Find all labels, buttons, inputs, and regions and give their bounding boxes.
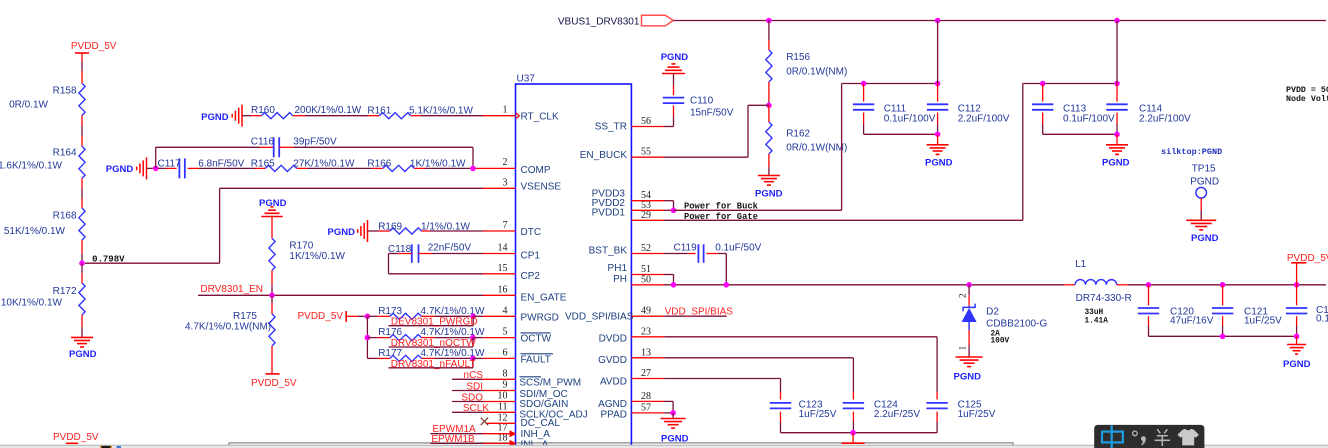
junction nOCTW net bbox=[470, 335, 476, 341]
wire PVDD rail bbox=[1128, 284, 1326, 286]
svg-text:CP1: CP1 bbox=[521, 250, 541, 261]
junction VBUS/C112 bbox=[935, 18, 941, 24]
svg-text:PGND: PGND bbox=[925, 157, 953, 168]
svg-text:6: 6 bbox=[503, 347, 508, 358]
svg-text:51K/1%/0.1W: 51K/1%/0.1W bbox=[4, 226, 66, 237]
svg-text:1uF/25V: 1uF/25V bbox=[1244, 316, 1282, 327]
svg-text:PGND: PGND bbox=[201, 112, 229, 123]
svg-text:PGND: PGND bbox=[69, 349, 97, 360]
svg-text:PGND: PGND bbox=[661, 52, 689, 63]
pin 28 AGND bbox=[631, 400, 664, 402]
IME toolbar bbox=[1094, 425, 1204, 448]
svg-text:PGND: PGND bbox=[328, 227, 356, 238]
wire SCLK bbox=[452, 411, 483, 413]
junction rail/ground bbox=[850, 430, 856, 436]
svg-text:R168: R168 bbox=[53, 210, 77, 221]
wire DRV8301_EN bbox=[198, 294, 483, 296]
no-connect X pin 12 bbox=[481, 418, 488, 425]
svg-text:FAULT: FAULT bbox=[521, 355, 551, 366]
svg-text:13: 13 bbox=[641, 347, 651, 358]
ground (clipped) under rail bbox=[842, 442, 865, 444]
pin 15 CP2 bbox=[483, 273, 516, 275]
wire Power for Gate bbox=[664, 219, 1023, 221]
pin 27 AVDD bbox=[631, 378, 664, 380]
wire R161-pin1 bbox=[421, 115, 483, 117]
taskbar tiny icons bbox=[100, 446, 112, 448]
svg-text:PGND: PGND bbox=[1102, 157, 1130, 168]
net label DRV8301_nFAULT with stub bbox=[389, 367, 473, 369]
pin 1 RT_CLK bbox=[483, 115, 516, 117]
svg-text:56: 56 bbox=[641, 116, 651, 127]
svg-text:SCS/M_PWM: SCS/M_PWM bbox=[519, 378, 581, 389]
wire nCS bbox=[452, 378, 483, 380]
wire VSENSE feedback bbox=[220, 187, 483, 189]
junction COMP/C116 bbox=[470, 166, 476, 172]
svg-text:29: 29 bbox=[641, 210, 651, 221]
diode D2 CDBB2100-G bbox=[968, 285, 970, 295]
svg-text:1: 1 bbox=[958, 346, 968, 351]
resistor R176 bbox=[367, 337, 377, 339]
svg-text:PGND: PGND bbox=[106, 164, 134, 175]
svg-text:49: 49 bbox=[641, 306, 651, 317]
IME icon ban (half-width) bbox=[1155, 429, 1170, 446]
power port PVDD_5V (pull-ups) bbox=[345, 311, 347, 322]
svg-text:L1: L1 bbox=[1075, 259, 1087, 270]
svg-text:9: 9 bbox=[503, 380, 508, 391]
pin 3 VSENSE bbox=[483, 187, 516, 189]
search box top sliver (behind schematic) bbox=[229, 443, 1013, 448]
svg-text:1.6K/1%/0.1W: 1.6K/1%/0.1W bbox=[0, 161, 63, 172]
svg-text:1K/1%/0.1W: 1K/1%/0.1W bbox=[289, 251, 345, 262]
pin 49 VDD_SPI/BIAS bbox=[631, 315, 664, 317]
svg-text:R160: R160 bbox=[251, 105, 275, 116]
capacitor C117 bbox=[158, 167, 166, 169]
junction EN/R170/R175 bbox=[269, 293, 275, 299]
capacitor C112 bbox=[937, 21, 939, 84]
svg-text:D2: D2 bbox=[986, 306, 999, 317]
IME icon punctuation bbox=[1133, 431, 1138, 436]
svg-text:2: 2 bbox=[503, 157, 508, 168]
resistor R162 bbox=[768, 105, 770, 122]
resistor R172 bbox=[81, 263, 83, 273]
junction D2/PH bbox=[966, 282, 972, 288]
svg-text:R161: R161 bbox=[367, 106, 391, 117]
junction PWRGD net bbox=[470, 314, 476, 320]
svg-text:R169: R169 bbox=[378, 221, 402, 232]
svg-text:11: 11 bbox=[498, 401, 508, 412]
svg-text:C110: C110 bbox=[690, 95, 714, 106]
svg-text:nCS: nCS bbox=[464, 370, 484, 381]
svg-text:Power for Gate: Power for Gate bbox=[684, 212, 758, 222]
svg-text:PGND: PGND bbox=[1283, 359, 1311, 370]
junction VBUS/R156 bbox=[766, 18, 772, 24]
pin 5 OCTW bbox=[483, 337, 515, 339]
junction PVDD/R173 bbox=[365, 314, 371, 320]
resistor R164 bbox=[81, 136, 83, 146]
svg-text:BST_BK: BST_BK bbox=[589, 245, 628, 256]
svg-text:DRV8301_EN: DRV8301_EN bbox=[200, 284, 263, 295]
wire Power for Buck bbox=[674, 209, 842, 211]
capacitor C110 bbox=[673, 74, 675, 86]
svg-text:R164: R164 bbox=[53, 148, 77, 159]
svg-text:SDI/M_OC: SDI/M_OC bbox=[519, 389, 567, 400]
junction C113 top bbox=[1040, 81, 1046, 87]
svg-text:2.2uF/25V: 2.2uF/25V bbox=[874, 409, 920, 420]
pin 50 PH bbox=[631, 284, 664, 286]
svg-text:CP2: CP2 bbox=[521, 271, 541, 282]
svg-text:EPWM1B: EPWM1B bbox=[431, 434, 475, 445]
svg-text:Node Voltage: Node Voltage bbox=[1286, 94, 1328, 104]
svg-text:DTC: DTC bbox=[521, 227, 542, 238]
inductor L1 bbox=[1064, 284, 1075, 286]
junction nFAULT net bbox=[470, 356, 476, 362]
svg-text:INH_A: INH_A bbox=[521, 429, 551, 440]
svg-text:4.7K/1%/0.1W(NM): 4.7K/1%/0.1W(NM) bbox=[185, 322, 271, 333]
svg-text:0R/0.1W(NM): 0R/0.1W(NM) bbox=[786, 67, 847, 78]
svg-text:1.41A: 1.41A bbox=[1085, 317, 1109, 325]
svg-text:0R/0.1W: 0R/0.1W bbox=[9, 99, 48, 110]
svg-text:28: 28 bbox=[641, 391, 651, 402]
svg-text:5: 5 bbox=[503, 327, 508, 338]
net label DRV8301_nOCTW with stub bbox=[389, 346, 473, 348]
svg-text:52: 52 bbox=[641, 243, 651, 254]
svg-text:10K/1%/0.1W: 10K/1%/0.1W bbox=[1, 297, 63, 308]
pin 29 PVDD1 bbox=[631, 219, 664, 221]
svg-text:VBUS1_DRV8301: VBUS1_DRV8301 bbox=[558, 17, 640, 28]
wire riser to C113/C114 rail bbox=[1022, 84, 1024, 221]
svg-text:R176: R176 bbox=[378, 327, 402, 338]
pin 23 DVDD bbox=[631, 336, 664, 338]
pin 13 GVDD bbox=[631, 357, 664, 359]
svg-text:Power for Buck: Power for Buck bbox=[684, 202, 759, 212]
svg-text:R166: R166 bbox=[367, 159, 391, 170]
svg-text:C116: C116 bbox=[251, 137, 275, 148]
svg-text:VDD_SPI/BIAS: VDD_SPI/BIAS bbox=[665, 307, 734, 318]
power port PGND (DTC) bbox=[367, 220, 369, 242]
wire riser to C111/C112 rail bbox=[841, 84, 843, 211]
IME icon zhong bbox=[1102, 432, 1123, 443]
pin 56 SS_TR bbox=[631, 126, 664, 128]
svg-text:0.1uF/100V: 0.1uF/100V bbox=[884, 113, 936, 124]
svg-text:0.1uF/100V: 0.1uF/100V bbox=[1063, 113, 1115, 124]
junction PVDD2/PVDD3 bbox=[671, 208, 677, 214]
svg-text:39pF/50V: 39pF/50V bbox=[293, 137, 337, 148]
overline FAULT bbox=[521, 353, 554, 355]
junction C121 bottom bbox=[1220, 334, 1226, 340]
svg-text:PVDD_5V: PVDD_5V bbox=[298, 311, 344, 322]
taskbar strip bbox=[0, 445, 1328, 448]
svg-text:DVDD: DVDD bbox=[599, 334, 627, 345]
capacitor C119 bbox=[664, 253, 688, 255]
junction C111 top bbox=[861, 81, 867, 87]
svg-text:RT_CLK: RT_CLK bbox=[521, 112, 559, 123]
junction divider 0.798V bbox=[79, 260, 85, 266]
ground PGND under D2 bbox=[956, 356, 983, 358]
IME icon shirt (skin) bbox=[1178, 429, 1199, 446]
net label DEV8301_PWRGD with stub bbox=[389, 325, 474, 327]
svg-text:PVDD_5V: PVDD_5V bbox=[251, 378, 297, 389]
svg-text:55: 55 bbox=[641, 147, 651, 158]
svg-text:R156: R156 bbox=[786, 52, 810, 63]
wire R160-R161 bbox=[305, 115, 368, 117]
pin 1 clock chevron bbox=[516, 113, 520, 119]
svg-text:R170: R170 bbox=[289, 240, 313, 251]
capacitor C123 bbox=[770, 402, 791, 404]
pin 51 PH1 bbox=[631, 274, 664, 276]
svg-text:3: 3 bbox=[503, 177, 508, 188]
svg-text:0.1uF/50V: 0.1uF/50V bbox=[715, 242, 761, 253]
resistor R160 bbox=[242, 115, 251, 117]
pin 52 BST_BK bbox=[631, 253, 664, 255]
wire C117-R165 bbox=[199, 167, 255, 169]
svg-text:EN_GATE: EN_GATE bbox=[521, 292, 567, 303]
svg-text:U37: U37 bbox=[517, 74, 536, 85]
pin 4 PWRGD bbox=[483, 315, 515, 317]
svg-text:PGND: PGND bbox=[661, 433, 689, 444]
power port PGND (RT_CLK network) bbox=[241, 105, 243, 127]
pin 2 COMP bbox=[476, 167, 516, 169]
wire SDO bbox=[452, 401, 483, 403]
svg-text:R162: R162 bbox=[786, 128, 810, 139]
wire EPWM1B bbox=[431, 442, 484, 444]
svg-text:16: 16 bbox=[498, 284, 508, 295]
svg-text:0.1uF/25V: 0.1uF/25V bbox=[1316, 313, 1328, 324]
op-amp U37 (gate driver IC box) bbox=[516, 84, 632, 448]
pin 7 DTC bbox=[483, 230, 516, 232]
resistor R173 bbox=[367, 315, 377, 317]
junction C119/PH bbox=[724, 282, 730, 288]
svg-text:100V: 100V bbox=[991, 337, 1010, 345]
svg-text:8: 8 bbox=[503, 368, 508, 379]
svg-text:2: 2 bbox=[958, 293, 968, 298]
svg-text:57: 57 bbox=[641, 402, 651, 413]
svg-text:TP15: TP15 bbox=[1192, 164, 1216, 175]
svg-text:silktop:PGND: silktop:PGND bbox=[1161, 147, 1222, 157]
resistor R161 bbox=[368, 115, 380, 117]
svg-text:C119: C119 bbox=[674, 242, 698, 253]
port VBUS1_DRV8301 bbox=[642, 15, 674, 26]
svg-text:4: 4 bbox=[503, 305, 508, 316]
svg-text:14: 14 bbox=[498, 243, 508, 254]
svg-text:PH: PH bbox=[613, 274, 627, 285]
svg-text:R173: R173 bbox=[378, 306, 402, 317]
svg-text:PGND: PGND bbox=[954, 371, 982, 382]
svg-text:EN_BUCK: EN_BUCK bbox=[580, 150, 628, 161]
ground PGND under C112 bbox=[927, 144, 949, 146]
wire EPWM1A bbox=[431, 433, 484, 435]
wire EN_BUCK to junction bbox=[748, 104, 769, 106]
power port PVDD_5V under R175 bbox=[265, 373, 279, 375]
overline OCTW bbox=[521, 332, 551, 334]
svg-text:2.2uF/100V: 2.2uF/100V bbox=[1139, 113, 1191, 124]
svg-text:DC_CAL: DC_CAL bbox=[521, 418, 561, 429]
resistor R168 bbox=[81, 198, 83, 208]
pin 12 DC_CAL bbox=[487, 422, 516, 424]
svg-text:VSENSE: VSENSE bbox=[521, 181, 562, 192]
resistor R158 bbox=[81, 71, 83, 84]
pin 53 PVDD2 bbox=[631, 209, 664, 211]
junction C112 top bbox=[935, 81, 941, 87]
svg-text:23: 23 bbox=[641, 326, 651, 337]
svg-text:7: 7 bbox=[503, 220, 508, 231]
resistor R177 bbox=[367, 357, 377, 359]
svg-text:2.2uF/100V: 2.2uF/100V bbox=[958, 113, 1010, 124]
svg-text:R158: R158 bbox=[53, 86, 77, 97]
wire C116 branch left bbox=[155, 147, 157, 168]
svg-text:PVDD_5V: PVDD_5V bbox=[53, 432, 99, 443]
capacitor C120 bbox=[1148, 285, 1150, 306]
capacitor C114 bbox=[1116, 21, 1118, 84]
svg-text:SDO: SDO bbox=[461, 392, 483, 403]
svg-text:R177: R177 bbox=[378, 348, 402, 359]
svg-text:0R/0.1W(NM): 0R/0.1W(NM) bbox=[786, 142, 847, 153]
ground PGND under PPAD bbox=[661, 418, 686, 420]
capacitor C116 bbox=[260, 146, 274, 148]
svg-text:GVDD: GVDD bbox=[598, 355, 627, 366]
ground PGND under TP15 bbox=[1186, 219, 1216, 221]
capacitor C122 (clipped) bbox=[1296, 285, 1298, 306]
capacitor C124 bbox=[843, 402, 864, 404]
resistor R169 bbox=[368, 230, 379, 232]
junction C122 bottom bbox=[1294, 334, 1300, 340]
svg-text:PGND: PGND bbox=[1191, 233, 1219, 244]
ground PGND under C122 bbox=[1287, 344, 1306, 346]
ground PGND under C114 bbox=[1106, 144, 1128, 146]
junction C122/PVDD bbox=[1294, 282, 1300, 288]
svg-text:33uH: 33uH bbox=[1085, 309, 1104, 317]
svg-text:DR74-330-R: DR74-330-R bbox=[1076, 293, 1132, 304]
svg-text:0.798V: 0.798V bbox=[92, 255, 125, 265]
capacitor C113 bbox=[1042, 84, 1044, 102]
svg-text:12: 12 bbox=[498, 412, 508, 423]
junction C121 bbox=[1220, 282, 1226, 288]
svg-text:R172: R172 bbox=[53, 286, 77, 297]
pin 55 EN_BUCK bbox=[631, 156, 664, 158]
svg-text:PPAD: PPAD bbox=[601, 409, 628, 420]
pin 6 FAULT bbox=[483, 357, 515, 359]
svg-text:DRV8301_nFAULT: DRV8301_nFAULT bbox=[391, 359, 476, 370]
resistor R170 bbox=[271, 217, 273, 239]
svg-text:PGND: PGND bbox=[1190, 176, 1219, 187]
svg-text:1uF/25V: 1uF/25V bbox=[958, 409, 996, 420]
resistor R156 bbox=[768, 21, 770, 41]
svg-text:SCLK: SCLK bbox=[463, 403, 489, 414]
junction C112 bottom bbox=[935, 132, 941, 138]
svg-text:PVDD = 50V: PVDD = 50V bbox=[1286, 86, 1328, 95]
junction R156/R162/EN_BUCK bbox=[766, 103, 772, 109]
capacitor C125 bbox=[926, 402, 947, 404]
junction R176 bbox=[365, 335, 371, 341]
svg-text:AVDD: AVDD bbox=[600, 377, 627, 388]
ground PGND under R162 bbox=[758, 175, 780, 177]
resistor R175 bbox=[271, 295, 273, 303]
wire C118 to CP2 bbox=[388, 254, 390, 274]
capacitor C121 bbox=[1222, 285, 1224, 306]
svg-text:VDD_SPI/BIAS: VDD_SPI/BIAS bbox=[565, 312, 634, 323]
wire VBUS rail bbox=[673, 20, 1326, 22]
svg-text:R175: R175 bbox=[233, 311, 257, 322]
resistor R166 bbox=[372, 167, 383, 169]
svg-text:22nF/50V: 22nF/50V bbox=[428, 243, 472, 254]
wire C116 branch right bbox=[293, 146, 473, 148]
svg-text:AGND: AGND bbox=[598, 399, 627, 410]
svg-text:10: 10 bbox=[498, 391, 508, 402]
overline SCS bbox=[519, 376, 541, 378]
svg-text:1: 1 bbox=[503, 105, 508, 116]
svg-text:SS_TR: SS_TR bbox=[595, 122, 627, 133]
svg-text:CDBB2100-G: CDBB2100-G bbox=[986, 318, 1047, 329]
svg-text:15: 15 bbox=[498, 263, 508, 274]
svg-text:PVDD_5V: PVDD_5V bbox=[71, 41, 117, 52]
capacitor C111 bbox=[863, 84, 865, 102]
junction C114 bottom bbox=[1114, 132, 1120, 138]
wire C111 bottom to C112 bottom bbox=[864, 133, 938, 135]
svg-text:50: 50 bbox=[641, 274, 651, 285]
junction C120 bbox=[1146, 282, 1152, 288]
svg-text:PH1: PH1 bbox=[608, 263, 628, 274]
svg-text:PWRGD: PWRGD bbox=[521, 312, 559, 323]
resistor R165 bbox=[255, 167, 266, 169]
svg-text:R165: R165 bbox=[251, 159, 275, 170]
wire R166-pin2 bbox=[425, 167, 473, 169]
ground PGND under R172 bbox=[71, 336, 93, 338]
pin 16 EN_GATE bbox=[483, 294, 516, 296]
svg-text:SDI: SDI bbox=[466, 381, 483, 392]
pin 57 PPAD bbox=[631, 412, 664, 414]
wire R165-R166 bbox=[307, 167, 372, 169]
pin 54 PVDD3 bbox=[631, 200, 664, 202]
svg-text:27: 27 bbox=[641, 368, 651, 379]
pin 14 CP1 bbox=[483, 253, 516, 255]
svg-text:COMP: COMP bbox=[521, 165, 551, 176]
junction C117/C116 bbox=[153, 166, 159, 172]
wire pull-up bus vertical bbox=[366, 316, 368, 358]
wire PH switch-node rail bbox=[664, 284, 1064, 286]
junction PH1/PH bbox=[671, 282, 677, 288]
svg-text:200K/1%/0.1W: 200K/1%/0.1W bbox=[295, 105, 362, 116]
wire output cap ground rail bbox=[1149, 335, 1297, 337]
svg-text:OCTW: OCTW bbox=[521, 334, 552, 345]
svg-text:47uF/16V: 47uF/16V bbox=[1170, 316, 1214, 327]
wire C123-C125 ground rail bbox=[781, 432, 938, 434]
svg-text:C117: C117 bbox=[158, 159, 182, 170]
svg-text:1uF/25V: 1uF/25V bbox=[799, 409, 837, 420]
power port PGND (COMP network) bbox=[146, 157, 148, 179]
junction VBUS/C114 bbox=[1114, 18, 1120, 24]
svg-text:15nF/50V: 15nF/50V bbox=[690, 108, 734, 119]
svg-text:PVDD1: PVDD1 bbox=[592, 207, 626, 218]
junction C114 top bbox=[1114, 81, 1120, 87]
wire SDI bbox=[452, 390, 483, 392]
wire C113 bottom to C114 bottom bbox=[1043, 133, 1117, 135]
junction AGND/PPAD bbox=[670, 410, 676, 416]
svg-text:PGND: PGND bbox=[755, 188, 783, 199]
